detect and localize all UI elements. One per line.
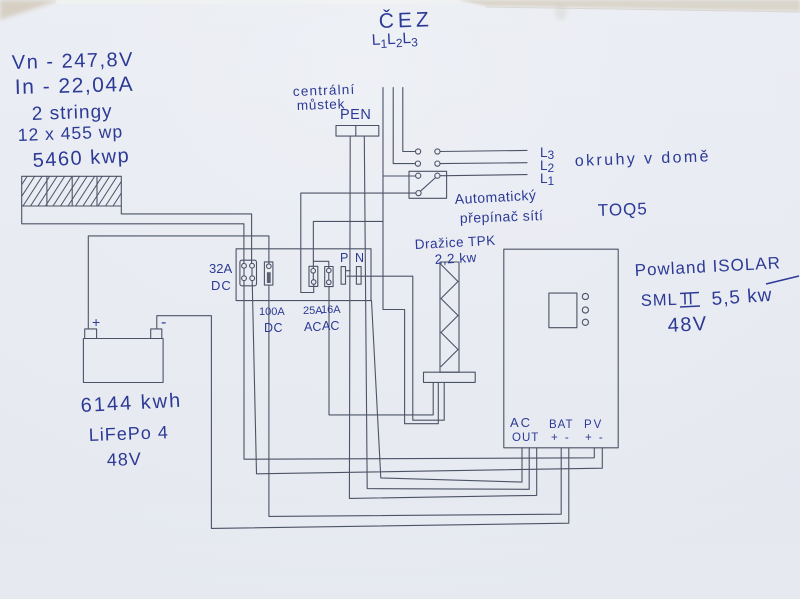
top-right table edge strip	[458, 0, 800, 11]
wire 32A left pole to inverter PV+	[244, 281, 594, 460]
svg-text:LiFePo 4: LiFePo 4	[88, 422, 169, 445]
wire grid L2 drop	[393, 88, 415, 164]
wire PV string B (panel left to 32A breaker)	[22, 206, 244, 264]
wire feed link 25A to 16A	[313, 261, 328, 268]
wire 100A fuse to inverter BAT+	[269, 285, 561, 516]
fuse F1 100A DC	[264, 262, 273, 285]
stroke over kw	[766, 276, 799, 284]
breaker Q1 32A DC	[240, 260, 257, 286]
wire house circuit L3	[440, 150, 527, 151]
svg-text:12 x 455 wp: 12 x 455 wp	[17, 121, 123, 145]
svg-text:100A: 100A	[259, 306, 285, 318]
svg-text:+ -: + -	[585, 432, 605, 444]
svg-text:AC: AC	[304, 320, 321, 334]
bus bar P	[341, 267, 345, 285]
fuse F2 25A AC	[309, 266, 318, 286]
svg-text:DC: DC	[211, 278, 232, 293]
wire 16A fuse to heater L	[329, 287, 433, 415]
bus bar N	[356, 267, 361, 285]
svg-text:48V: 48V	[106, 449, 142, 470]
svg-text:AC: AC	[510, 415, 532, 430]
svg-text:16A: 16A	[321, 304, 341, 316]
wire 32A right pole to inverter PV-	[252, 281, 602, 474]
PEN terminal bar	[336, 126, 379, 137]
wire switch output to 25A fuse	[301, 193, 416, 292]
wire L1 to switch	[383, 175, 416, 177]
svg-text:TOQ5: TOQ5	[597, 199, 648, 220]
svg-text:+ -: + -	[551, 432, 571, 444]
wire battery minus to inverter BAT-	[157, 316, 569, 529]
svg-text:48V: 48V	[667, 313, 708, 337]
wire L1 tee to AC fuse feed	[313, 221, 383, 268]
svg-text:5,5 kw: 5,5 kw	[711, 285, 773, 310]
heater flange	[424, 372, 476, 382]
svg-text:In - 22,04A: In - 22,04A	[15, 73, 135, 99]
svg-text:můstek: můstek	[297, 96, 346, 113]
svg-text:N: N	[355, 251, 364, 265]
svg-text:-: -	[161, 314, 166, 331]
svg-text:přepínač sítí: přepínač sítí	[460, 207, 544, 226]
inverter U1 Powland ISOLAR	[504, 249, 618, 448]
transfer switch TOQ5	[409, 149, 447, 198]
wire PV string A (panel right to 32A breaker)	[121, 206, 251, 263]
solar panel PV array	[8, 175, 133, 206]
svg-text:Vn - 247,8V: Vn - 247,8V	[12, 49, 135, 74]
svg-text:P: P	[340, 251, 348, 265]
fuse F3 16A AC	[325, 267, 333, 287]
svg-text:2,2 kw: 2,2 kw	[434, 250, 477, 267]
svg-text:+: +	[92, 314, 100, 330]
top-left table corner wedge	[0, 0, 60, 20]
svg-text:DC: DC	[264, 321, 283, 335]
wire AC L from panel box to inverter	[372, 301, 523, 483]
smudge	[555, 4, 567, 20]
svg-text:32A: 32A	[209, 261, 232, 276]
wire battery plus to 100A fuse	[88, 236, 269, 329]
wire N bar to heater N	[347, 276, 444, 420]
breaker panel box	[236, 249, 371, 301]
svg-text:BAT: BAT	[549, 419, 574, 431]
wire PEN right drop to inverter AC N	[364, 136, 529, 489]
wire P bar tab	[346, 270, 351, 272]
svg-text:AC: AC	[322, 319, 339, 333]
svg-text:L1: L1	[540, 171, 555, 188]
battery B1	[83, 329, 163, 383]
wire grid L1 drop	[383, 88, 438, 424]
svg-text:PEN: PEN	[340, 107, 371, 123]
svg-text:PV: PV	[584, 419, 603, 431]
wire grid L3 drop	[403, 88, 416, 152]
heater Dražice TPK tube	[440, 262, 459, 372]
wire PEN left drop to inverter AC PE	[349, 136, 536, 498]
svg-text:OUT: OUT	[512, 432, 539, 444]
wire house circuit L2	[440, 162, 527, 165]
wire house circuit L1	[440, 175, 527, 176]
